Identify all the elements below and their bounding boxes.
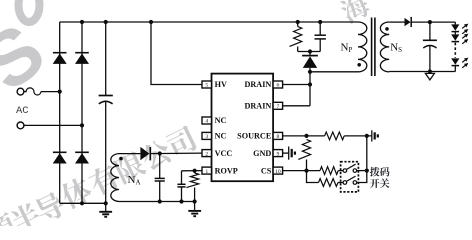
svg-text:SOURCE: SOURCE (237, 132, 272, 141)
diode D7 vcc (140, 147, 150, 161)
pin 4 NC (202, 116, 227, 125)
watermark partial char top right (338, 0, 372, 25)
pin 2 VCC (202, 149, 232, 158)
node switch out (365, 169, 369, 173)
node Np phase dot (357, 63, 361, 67)
ground G4 sideways (372, 130, 378, 141)
diode D3 (bridge) (53, 152, 67, 163)
wire pin6 drain (283, 84, 310, 86)
node rovp (193, 169, 197, 173)
LED D9 (451, 34, 459, 40)
fuse F1 (24, 88, 41, 95)
diode D5 clamp (302, 52, 318, 72)
wire drain vertical (309, 72, 311, 106)
wire switch outputs (357, 170, 367, 172)
svg-text:NC: NC (215, 116, 227, 125)
watermark logo letter P (partial ring, top-left) (19, 0, 40, 22)
wire LED dashed (more LEDs) (454, 43, 456, 58)
svg-text:4: 4 (205, 119, 208, 125)
pin 8 SOURCE (237, 132, 282, 141)
svg-text:NC: NC (215, 132, 227, 141)
capacitor C3 output (423, 22, 437, 71)
svg-text:3: 3 (205, 134, 208, 140)
wire rovp (182, 170, 203, 172)
wire primary bottom (310, 71, 358, 73)
node snubber diode (308, 49, 312, 53)
ground G2 sideways at gnd pin (289, 147, 295, 160)
node snubber C top (318, 20, 322, 24)
pin 5 HV (202, 80, 227, 89)
transformer T1 aux winding Na (111, 154, 119, 202)
node rovp cap bottom (179, 199, 183, 203)
transformer T1 secondary winding Ns (380, 22, 389, 72)
svg-text:HV: HV (215, 80, 227, 89)
node HV tap (149, 20, 153, 24)
resistor R2 rovp (194, 171, 196, 173)
node top rail x106 (104, 20, 108, 24)
diode D4 (bridge) (75, 152, 89, 163)
pin 9 GND (253, 149, 283, 158)
node bottom rail x106 (104, 201, 108, 205)
node pin6 drain (308, 82, 312, 86)
node snubber R top (296, 20, 300, 24)
svg-text:6: 6 (276, 83, 279, 89)
wire HV (151, 22, 202, 85)
DIP switch SW1 box (341, 162, 359, 192)
diode D6 output (405, 17, 412, 27)
wire bridge left column (59, 22, 61, 203)
wire secondary top (389, 21, 404, 23)
wire cs lower branch (307, 171, 319, 183)
node source (304, 134, 308, 138)
wire secondary bottom (389, 71, 455, 73)
transformer core (371, 18, 373, 77)
diode D1 (bridge) (53, 53, 67, 64)
svg-text:AC: AC (16, 105, 29, 117)
watermark chinese text 半导体有限公司 diagonal (0, 211, 19, 240)
wire snubber bottom (298, 51, 321, 53)
transformer T1 primary winding Np (358, 22, 367, 72)
node vcc cap bottom (158, 199, 162, 203)
node Ns phase dot (385, 27, 389, 31)
ground primary G1 (99, 203, 112, 217)
resistor R5 cs upper (320, 167, 338, 175)
svg-text:VCC: VCC (215, 149, 233, 158)
svg-text:2: 2 (205, 151, 208, 157)
resistor R3 source-gnd horizontal (325, 132, 345, 140)
ground secondary G3 (open triangle) (425, 73, 434, 80)
pin 10 CS (261, 166, 283, 175)
node Na phase dot (119, 157, 123, 161)
node AC N junction (80, 123, 84, 127)
svg-text:DRAIN: DRAIN (244, 102, 271, 111)
AC terminal N (17, 122, 24, 129)
label DIP switch 拨码开关 (370, 167, 380, 177)
wire pin7 drain (283, 105, 310, 107)
wire vcc (150, 152, 202, 155)
resistor R4 source-cs vertical (298, 140, 310, 160)
switch SW1a (343, 164, 357, 172)
svg-text:DRAIN: DRAIN (244, 80, 271, 89)
svg-text:8: 8 (276, 134, 279, 140)
capacitor C5 rovp (177, 171, 185, 202)
node vcc cap top (158, 151, 162, 155)
node drain top (308, 70, 312, 74)
wire AC N to bridge (24, 124, 82, 126)
wire bottom rail (60, 202, 106, 204)
node output cap top (428, 20, 432, 24)
wire pin10 cs (283, 170, 320, 172)
wire pin8 source (283, 135, 325, 137)
switch SW1b (343, 176, 357, 184)
svg-text:10: 10 (275, 169, 281, 175)
node cs (304, 169, 308, 173)
LED D8 (451, 24, 459, 30)
capacitor C2 snubber (315, 22, 326, 52)
pin 6 DRAIN (244, 80, 282, 89)
wire top rail (60, 21, 358, 23)
wire pin9 gnd (283, 152, 289, 154)
wire AC L to bridge (41, 91, 60, 93)
node output cap bottom (428, 69, 432, 73)
svg-text:ROVP: ROVP (215, 166, 238, 175)
wire diode to out (411, 21, 455, 23)
svg-text:CS: CS (261, 166, 272, 175)
node source R right (365, 134, 369, 138)
svg-text:GND: GND (253, 149, 271, 158)
ground G5 aux (188, 202, 201, 217)
LED string column (454, 22, 456, 24)
wire Na bottom (119, 201, 195, 203)
wire Na top (119, 153, 140, 155)
svg-text:5: 5 (205, 83, 208, 89)
svg-text:7: 7 (276, 104, 279, 110)
LED D10 (451, 58, 459, 64)
node AC L junction (58, 90, 62, 94)
node top rail x82 (80, 20, 84, 24)
op-amp U1 controller IC body (212, 74, 274, 182)
resistor R6 cs lower (319, 179, 338, 187)
node rovp R bottom (193, 199, 197, 203)
pin 3 NC (202, 132, 227, 141)
resistor R1 snubber (290, 27, 302, 47)
wire bridge mid column (81, 22, 83, 203)
capacitor C4 vcc (155, 154, 165, 202)
pin 1 ROVP (202, 166, 238, 175)
pin 7 DRAIN (244, 102, 282, 111)
svg-text:9: 9 (276, 151, 279, 157)
capacitor C1 bulk (99, 22, 113, 203)
svg-text:1: 1 (205, 169, 208, 175)
AC terminal L (17, 88, 24, 95)
diode D2 (bridge) (75, 53, 89, 64)
node bottom rail x82 (80, 201, 84, 205)
